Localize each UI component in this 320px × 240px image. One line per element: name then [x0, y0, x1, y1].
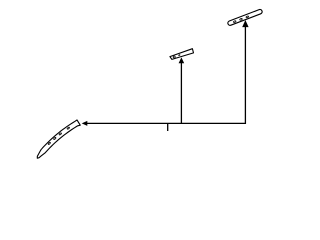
part: lower-left pillar moulding strip: [37, 120, 80, 158]
arrowhead: right arrow up: [242, 20, 248, 27]
part detail: clip slots on lower-left strip: [48, 127, 70, 145]
arrowhead: middle arrow up: [179, 57, 185, 63]
wire: middle vertical leader: [180, 63, 182, 124]
part detail: clip marks on middle strip: [173, 54, 180, 58]
wire: downward tick on leader line: [167, 123, 169, 131]
part detail: clip slots on top-right strip: [233, 16, 249, 23]
part: middle short moulding strip: [170, 49, 194, 60]
part: top-right moulding strip: [230, 12, 260, 23]
wire: horizontal leader line: [84, 122, 246, 124]
wire: right vertical leader: [244, 27, 246, 125]
arrowhead: left arrow to lower strip: [82, 121, 88, 126]
